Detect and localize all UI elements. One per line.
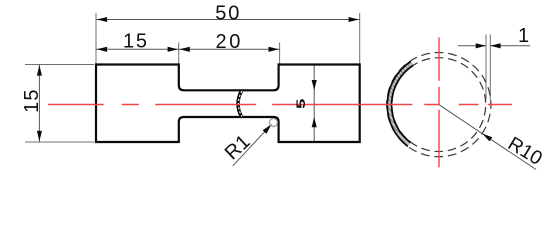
svg-text:50: 50 [215,3,241,25]
svg-text:15: 15 [21,88,43,113]
svg-text:15: 15 [123,31,149,53]
svg-text:5: 5 [295,98,308,109]
svg-text:20: 20 [215,31,242,53]
svg-text:1: 1 [518,25,529,47]
